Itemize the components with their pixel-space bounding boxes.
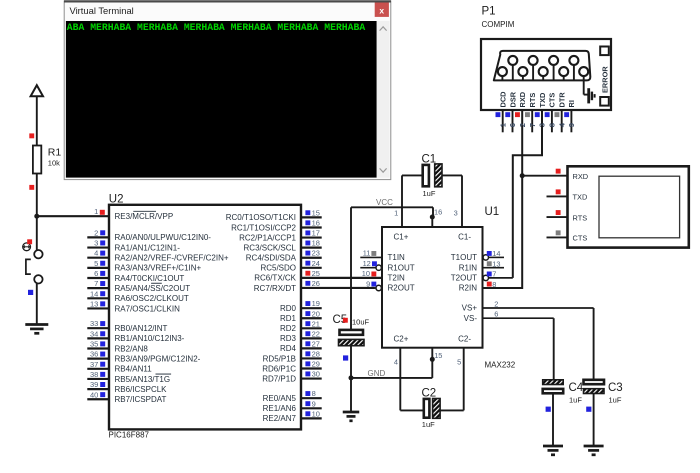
svg-text:RE3/MCLR/VPP: RE3/MCLR/VPP (115, 212, 174, 221)
svg-text:RC3/SCK/SCL: RC3/SCK/SCL (244, 243, 297, 252)
svg-text:R1: R1 (48, 147, 62, 159)
svg-text:RA2/AN2/VREF-/CVREF/C2IN+: RA2/AN2/VREF-/CVREF/C2IN+ (115, 254, 229, 263)
svg-text:24: 24 (312, 259, 320, 268)
svg-text:RB2/AN8: RB2/AN8 (115, 344, 149, 353)
svg-text:34: 34 (90, 329, 98, 338)
svg-text:C1-: C1- (458, 233, 471, 242)
svg-text:RB7/ICSPDAT: RB7/ICSPDAT (115, 395, 167, 404)
svg-text:6: 6 (94, 269, 98, 278)
svg-text:RD7/P1D: RD7/P1D (262, 374, 296, 383)
svg-text:CTS: CTS (548, 93, 557, 108)
svg-text:MAX232: MAX232 (485, 361, 516, 370)
svg-text:3: 3 (94, 239, 98, 248)
svg-text:26: 26 (312, 279, 320, 288)
svg-text:RB3/AN9/PGM/C12IN2-: RB3/AN9/PGM/C12IN2- (115, 354, 201, 363)
svg-text:9: 9 (567, 123, 576, 127)
svg-text:U1: U1 (485, 206, 500, 218)
svg-text:RE1/AN6: RE1/AN6 (263, 404, 297, 413)
svg-text:DCD: DCD (499, 91, 508, 108)
svg-text:VCC: VCC (376, 198, 393, 207)
svg-text:DSR: DSR (508, 91, 517, 107)
svg-text:RA4/T0CKI/C1OUT: RA4/T0CKI/C1OUT (115, 274, 185, 283)
svg-text:10k: 10k (48, 159, 60, 168)
svg-text:RC6/TX/CK: RC6/TX/CK (254, 274, 296, 283)
svg-text:T1OUT: T1OUT (451, 253, 477, 262)
svg-text:22: 22 (312, 329, 320, 338)
svg-text:T2OUT: T2OUT (451, 274, 477, 283)
svg-text:RA7/OSC1/CLKIN: RA7/OSC1/CLKIN (115, 304, 181, 313)
svg-text:8: 8 (312, 389, 316, 398)
svg-text:1: 1 (94, 207, 98, 216)
svg-text:RD3: RD3 (280, 334, 297, 343)
svg-text:13: 13 (90, 299, 98, 308)
svg-text:Virtual Terminal: Virtual Terminal (70, 5, 134, 16)
svg-text:1uF: 1uF (569, 396, 582, 405)
svg-text:R2OUT: R2OUT (388, 284, 415, 293)
svg-text:21: 21 (312, 319, 320, 328)
svg-text:29: 29 (312, 360, 320, 369)
svg-text:14: 14 (492, 249, 500, 258)
svg-text:R1IN: R1IN (459, 263, 477, 272)
svg-text:1uF: 1uF (422, 420, 435, 429)
svg-text:RXD: RXD (573, 172, 589, 181)
svg-text:8: 8 (548, 123, 557, 127)
svg-text:10: 10 (312, 409, 320, 418)
svg-text:18: 18 (312, 239, 320, 248)
svg-text:39: 39 (90, 380, 98, 389)
svg-text:RB4/AN11: RB4/AN11 (115, 365, 153, 374)
svg-text:T2IN: T2IN (388, 274, 406, 283)
svg-text:x: x (379, 5, 384, 15)
svg-text:C2: C2 (422, 387, 437, 399)
svg-text:RC4/SDI/SDA: RC4/SDI/SDA (246, 254, 297, 263)
svg-text:10: 10 (362, 269, 370, 278)
svg-text:6: 6 (494, 310, 498, 319)
svg-text:23: 23 (312, 249, 320, 258)
svg-text:C1+: C1+ (394, 233, 409, 242)
svg-text:19: 19 (312, 299, 320, 308)
svg-text:RTS: RTS (528, 93, 537, 108)
svg-text:16: 16 (434, 208, 442, 217)
svg-text:9: 9 (366, 279, 370, 288)
svg-text:RB0/AN12/INT: RB0/AN12/INT (115, 324, 168, 333)
svg-text:2: 2 (94, 228, 98, 237)
svg-text:RB1/AN10/C12IN3-: RB1/AN10/C12IN3- (115, 334, 185, 343)
svg-text:PIC16F887: PIC16F887 (109, 430, 150, 439)
svg-text:CTS: CTS (573, 234, 588, 243)
svg-text:RI: RI (567, 100, 576, 107)
svg-text:RE2/AN7: RE2/AN7 (263, 414, 297, 423)
svg-text:4: 4 (94, 249, 98, 258)
svg-text:RD1: RD1 (280, 314, 297, 323)
svg-text:ABA MERHABA MERHABA MERHABA ME: ABA MERHABA MERHABA MERHABA MERHABA MERH… (67, 22, 366, 33)
svg-text:RA6/OSC2/CLKOUT: RA6/OSC2/CLKOUT (115, 294, 189, 303)
svg-text:C2+: C2+ (394, 335, 409, 344)
svg-text:TXD: TXD (538, 92, 547, 107)
svg-text:38: 38 (90, 370, 98, 379)
svg-text:5: 5 (457, 358, 461, 367)
svg-text:RA1/AN1/C12IN1-: RA1/AN1/C12IN1- (115, 243, 181, 252)
svg-text:17: 17 (312, 229, 320, 238)
svg-text:2: 2 (518, 123, 527, 127)
svg-text:RD5/P1B: RD5/P1B (263, 354, 296, 363)
svg-text:30: 30 (312, 370, 320, 379)
svg-text:1uF: 1uF (423, 189, 436, 198)
svg-text:VS-: VS- (464, 314, 478, 323)
svg-text:37: 37 (90, 360, 98, 369)
svg-text:T1IN: T1IN (388, 253, 406, 262)
svg-text:15: 15 (312, 208, 320, 217)
svg-text:RD2: RD2 (280, 324, 297, 333)
svg-text:28: 28 (312, 349, 320, 358)
svg-text:GND: GND (368, 369, 386, 378)
svg-text:DTR: DTR (558, 92, 567, 108)
svg-text:5: 5 (94, 259, 98, 268)
svg-text:C3: C3 (608, 382, 623, 394)
svg-text:9: 9 (312, 399, 316, 408)
svg-text:3: 3 (538, 123, 547, 127)
svg-text:6: 6 (508, 123, 517, 127)
svg-text:C1: C1 (422, 153, 437, 165)
svg-text:11: 11 (363, 249, 371, 258)
svg-text:RD4: RD4 (280, 344, 297, 353)
svg-text:R1OUT: R1OUT (388, 263, 415, 272)
svg-text:RC2/P1A/CCP1: RC2/P1A/CCP1 (239, 233, 296, 242)
svg-text:RB6/ICSPCLK: RB6/ICSPCLK (115, 385, 168, 394)
svg-text:7: 7 (492, 270, 496, 279)
svg-text:36: 36 (90, 350, 98, 359)
svg-text:R2IN: R2IN (459, 284, 477, 293)
svg-text:RA0/AN0/ULPWU/C12IN0-: RA0/AN0/ULPWU/C12IN0- (115, 233, 212, 242)
svg-text:7: 7 (528, 123, 537, 127)
svg-text:35: 35 (90, 340, 98, 349)
svg-text:RA5/AN4/SS/C2OUT: RA5/AN4/SS/C2OUT (115, 284, 191, 293)
svg-text:25: 25 (312, 269, 320, 278)
svg-text:RC7/RX/DT: RC7/RX/DT (254, 284, 296, 293)
svg-text:1: 1 (394, 209, 398, 218)
svg-text:1uF: 1uF (609, 396, 622, 405)
svg-text:VS+: VS+ (462, 304, 478, 313)
svg-text:3: 3 (454, 209, 458, 218)
svg-text:4: 4 (394, 358, 398, 367)
svg-text:C4: C4 (569, 382, 584, 394)
svg-text:RC5/SDO: RC5/SDO (260, 264, 296, 273)
svg-text:10uF: 10uF (352, 318, 370, 327)
svg-text:RTS: RTS (573, 213, 588, 222)
svg-text:RC1/T1OSI/CCP2: RC1/T1OSI/CCP2 (231, 223, 296, 232)
svg-text:TXD: TXD (573, 193, 588, 202)
svg-text:33: 33 (90, 319, 98, 328)
svg-text:COMPIM: COMPIM (482, 20, 515, 29)
svg-text:13: 13 (492, 260, 500, 269)
svg-text:2: 2 (494, 300, 498, 309)
svg-text:40: 40 (90, 390, 98, 399)
svg-text:7: 7 (94, 279, 98, 288)
svg-text:15: 15 (434, 351, 442, 360)
svg-text:RD0: RD0 (280, 304, 297, 313)
svg-text:RA3/AN3/VREF+/C1IN+: RA3/AN3/VREF+/C1IN+ (115, 264, 202, 273)
svg-text:C2-: C2- (458, 335, 471, 344)
svg-text:RD6/P1C: RD6/P1C (262, 364, 296, 373)
svg-text:20: 20 (312, 309, 320, 318)
svg-text:U2: U2 (109, 193, 124, 205)
svg-text:14: 14 (90, 289, 98, 298)
svg-text:RB5/AN13/T1G: RB5/AN13/T1G (115, 375, 171, 384)
svg-text:RXD: RXD (518, 91, 527, 107)
svg-text:16: 16 (312, 218, 320, 227)
svg-text:RE0/AN5: RE0/AN5 (263, 394, 297, 403)
svg-text:27: 27 (312, 339, 320, 348)
svg-text:12: 12 (363, 259, 371, 268)
svg-text:P1: P1 (482, 6, 496, 18)
svg-text:RC0/T1OSO/T1CKI: RC0/T1OSO/T1CKI (226, 213, 296, 222)
svg-text:ERROR: ERROR (600, 66, 609, 93)
